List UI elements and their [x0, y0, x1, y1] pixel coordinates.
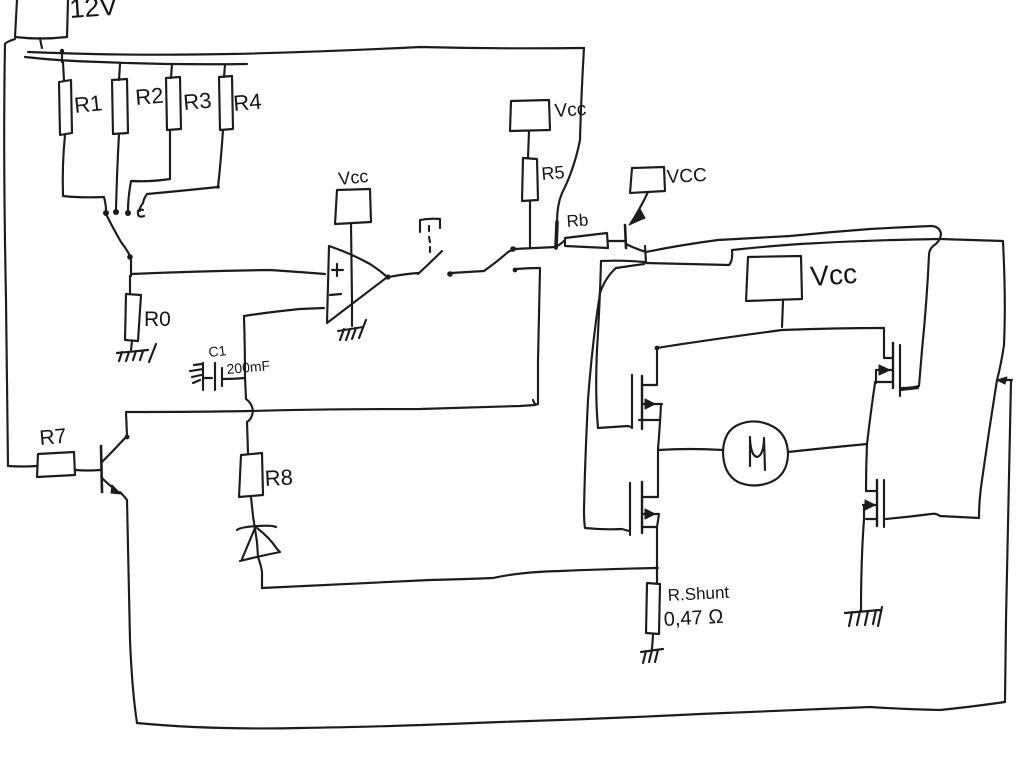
resistor Rshunt — [646, 583, 660, 634]
mosfet M2 source stub — [875, 381, 892, 383]
wire M4 source down to ground — [861, 519, 864, 611]
wire Q2 collector up to feedback rail — [126, 412, 127, 436]
junction shunt node — [655, 566, 659, 570]
mosfet M3 channel bar — [641, 482, 643, 533]
wire diode to feedback bottom run — [258, 557, 262, 588]
Vcc box bridge — [746, 256, 802, 301]
wire wiper node down — [130, 259, 132, 276]
capacitor C1 left plate — [214, 363, 216, 390]
wire collector drop — [645, 246, 646, 262]
wire M3 source down to shunt — [657, 514, 659, 583]
wire motor right node to M4 drain — [866, 444, 867, 491]
selector contact dot 1 — [103, 210, 109, 216]
wire op-amp output to switch arm — [389, 273, 418, 277]
wire op-amp minus input — [244, 308, 324, 316]
wire M1 source down to motor node — [658, 404, 661, 449]
resistor R8 — [239, 453, 263, 497]
wire stub junction right — [997, 379, 1012, 381]
resistor R4 — [219, 76, 233, 130]
mosfet M1 source stub — [639, 419, 660, 421]
svg-text:R3: R3 — [182, 88, 212, 115]
wire junction to Rb — [514, 240, 565, 249]
relay dashed link — [429, 226, 430, 252]
transistor Q1 emitter with arrow — [631, 192, 648, 223]
wire R2 to selector contact 2 — [116, 134, 119, 209]
ground under R0 — [117, 344, 156, 362]
wire control line1 to top right — [646, 226, 932, 252]
junction dot supply rail — [60, 49, 64, 53]
mosfet M3 gate bar — [629, 483, 631, 535]
resistor R1 — [59, 80, 72, 135]
motor M letter — [750, 437, 765, 470]
diode D1 center wire — [253, 516, 258, 557]
junction dot R5 node — [510, 246, 516, 252]
wire node B to drop — [516, 268, 540, 269]
wire motor right — [788, 444, 867, 452]
wire bottom return run — [137, 702, 1005, 728]
op-amp plus input marking — [332, 264, 343, 276]
mosfet M4 source stub — [866, 518, 876, 520]
wire M4 gate run — [886, 514, 979, 519]
wire V2 top curve — [616, 264, 644, 268]
node stub on supply rail — [61, 50, 63, 62]
bridge Vcc rail — [657, 328, 884, 348]
svg-text:Vcc: Vcc — [554, 99, 587, 122]
mosfet M1 channel bar — [641, 376, 643, 429]
junction dot R4 wire — [216, 185, 220, 189]
mosfet M4 gate bar — [883, 480, 885, 527]
resistor R2 — [112, 79, 128, 134]
wire stub rail to R4 — [224, 65, 225, 77]
mosfet M2 body arrow — [876, 369, 892, 371]
svg-text:R1: R1 — [73, 90, 104, 118]
wire M2 body-source tie — [875, 370, 877, 383]
resistor R7 — [37, 452, 75, 477]
wire resistor bank rail — [25, 57, 247, 64]
wire left rail from 12V down left border — [4, 39, 15, 466]
capacitor C1 right plate — [221, 368, 223, 386]
wire thick end of control line — [556, 222, 557, 248]
resistor Rb — [565, 233, 608, 248]
transistor Q2 collector — [102, 437, 126, 462]
svg-text:12V: 12V — [68, 0, 118, 24]
wire C1 node hop over feedback rail — [245, 377, 253, 453]
motor M circle — [723, 421, 788, 485]
wire M2 source down to motor right node — [867, 383, 875, 444]
Vcc box R5 — [510, 100, 550, 131]
wire line2 right run — [646, 239, 940, 265]
wire ground to C1 left plate — [204, 377, 212, 379]
junction dot rail left — [655, 346, 660, 351]
transistor Q1 collector — [626, 244, 646, 252]
wire Rshunt to ground — [652, 635, 653, 649]
svg-text:0,47 Ω: 0,47 Ω — [663, 606, 724, 631]
svg-text:C1: C1 — [208, 342, 228, 360]
wire Vcc box to rail — [782, 301, 783, 327]
wire feedback bottom run to shunt node — [262, 568, 656, 588]
wire Q2 emitter down to bottom return — [127, 500, 137, 723]
mosfet M3 drain stub — [643, 496, 658, 498]
svg-text:R8: R8 — [264, 465, 293, 491]
wire line1 loop into gate branch — [929, 226, 941, 255]
wire R0 to ground — [131, 341, 132, 350]
wire Vcc box to R5 — [528, 131, 529, 158]
svg-text:Vcc: Vcc — [809, 258, 858, 292]
transistor Q1 base bar — [625, 225, 626, 248]
wire contact to R5 junction — [451, 250, 512, 273]
wire V1 M1 gate line — [596, 261, 631, 428]
wire C1 right plate to node — [223, 378, 245, 379]
wire wiper node to op-amp plus input — [131, 270, 325, 274]
wire R3 to selector contact 3 — [128, 130, 170, 210]
wire C1 node vertical — [244, 316, 245, 377]
wire control line2 from V1 top — [601, 261, 645, 262]
wire right edge down — [979, 242, 1005, 518]
op-amp U1 triangle — [327, 246, 387, 323]
wire 12V box to supply rail — [40, 38, 42, 48]
diode D1 cathode bar — [237, 526, 276, 530]
mosfet M1 gate bar — [631, 375, 633, 428]
node B dot — [513, 268, 518, 273]
ground under Rshunt — [641, 649, 663, 663]
resistor R5 — [522, 158, 538, 201]
wire node B drop down to feedback rail — [533, 269, 540, 405]
mosfet M4 drain stub — [866, 490, 876, 492]
resistor R0 — [125, 294, 141, 341]
wire top supply run to control drop — [28, 47, 584, 55]
mosfet M1 body arrow — [643, 403, 662, 405]
Vcc box op-amp — [335, 189, 371, 224]
mosfet M2 channel bar — [892, 343, 894, 388]
junction dot Q2 collector — [125, 435, 130, 440]
switch wiper arm — [107, 216, 129, 254]
junction arrow right edge — [997, 377, 1007, 384]
ground under op-amp — [338, 320, 366, 340]
wire R7 to Q2 base — [75, 469, 100, 472]
svg-text:R5: R5 — [541, 162, 566, 184]
mosfet M4 channel bar — [876, 480, 878, 526]
wire line2 to right edge corner — [940, 239, 1003, 241]
Vcc box Q1 — [630, 167, 665, 193]
selector contact dot 4 — [138, 210, 144, 217]
wire op-amp supply through to ground — [351, 224, 352, 326]
wire stub rail to R3 — [171, 64, 172, 78]
battery box 12V — [15, 0, 68, 39]
wire motor node to M3 drain — [657, 449, 659, 497]
wire Rb to Q1 base — [608, 240, 624, 242]
junction dot op-amp output — [385, 274, 390, 279]
op-amp minus input marking — [330, 294, 341, 295]
transistor Q2 base bar — [101, 446, 102, 492]
relay fixed contact dot — [447, 271, 453, 277]
wire stub rail to R1 — [63, 62, 64, 81]
wire stub rail to R2 — [119, 64, 120, 80]
svg-text:R.Shunt: R.Shunt — [667, 583, 730, 605]
relay coil dashed box — [420, 219, 440, 232]
svg-text:Vcc: Vcc — [337, 166, 369, 189]
selector contact dot 2 — [113, 209, 119, 215]
wire control line down to R5 junction — [557, 48, 584, 222]
wire M4 body-source tie — [863, 505, 865, 519]
wire R1 to selector contact 1 — [63, 135, 106, 210]
wire node to R0 — [129, 276, 131, 294]
relay switch arm — [418, 251, 442, 274]
mosfet M4 body arrow — [863, 504, 876, 506]
wire V2 M3 gate line — [584, 268, 629, 531]
ground at C1 — [190, 364, 203, 383]
resistor R3 — [166, 77, 181, 130]
diode D1 triangle — [240, 528, 280, 561]
mosfet M3 body arrow — [643, 513, 659, 515]
svg-text:R2: R2 — [134, 83, 164, 110]
selector contact dot 3 — [125, 210, 131, 216]
ground stem C1 — [202, 363, 204, 390]
wire M2 gate branch down — [901, 255, 929, 388]
ground under M4 — [845, 607, 882, 626]
svg-text:Rb: Rb — [566, 211, 589, 231]
wire R4 to selector contact 4 — [140, 130, 223, 211]
transistor Q2 emitter with arrow — [102, 478, 112, 487]
wire R8 to diode — [251, 497, 253, 516]
wire motor left — [658, 449, 723, 450]
wire right vertical to bottom return — [1005, 381, 1011, 701]
svg-text:R7: R7 — [39, 425, 68, 450]
wire rail corner to M2 drain — [884, 328, 892, 358]
wire M2 gate to branch — [900, 388, 918, 390]
wire R7 from left rail — [8, 465, 37, 468]
mosfet M2 gate bar — [899, 345, 901, 396]
wire R5 to junction — [529, 201, 531, 247]
svg-text:R0: R0 — [144, 308, 171, 331]
mosfet M3 source stub — [643, 526, 657, 528]
junction dot wiper — [127, 254, 133, 260]
svg-text:R4: R4 — [232, 89, 262, 116]
wire feedback rail horizontal (collector to node B drop) — [126, 405, 535, 412]
svg-text:VCC: VCC — [666, 165, 707, 188]
mosfet M1 drain stub — [643, 348, 657, 385]
